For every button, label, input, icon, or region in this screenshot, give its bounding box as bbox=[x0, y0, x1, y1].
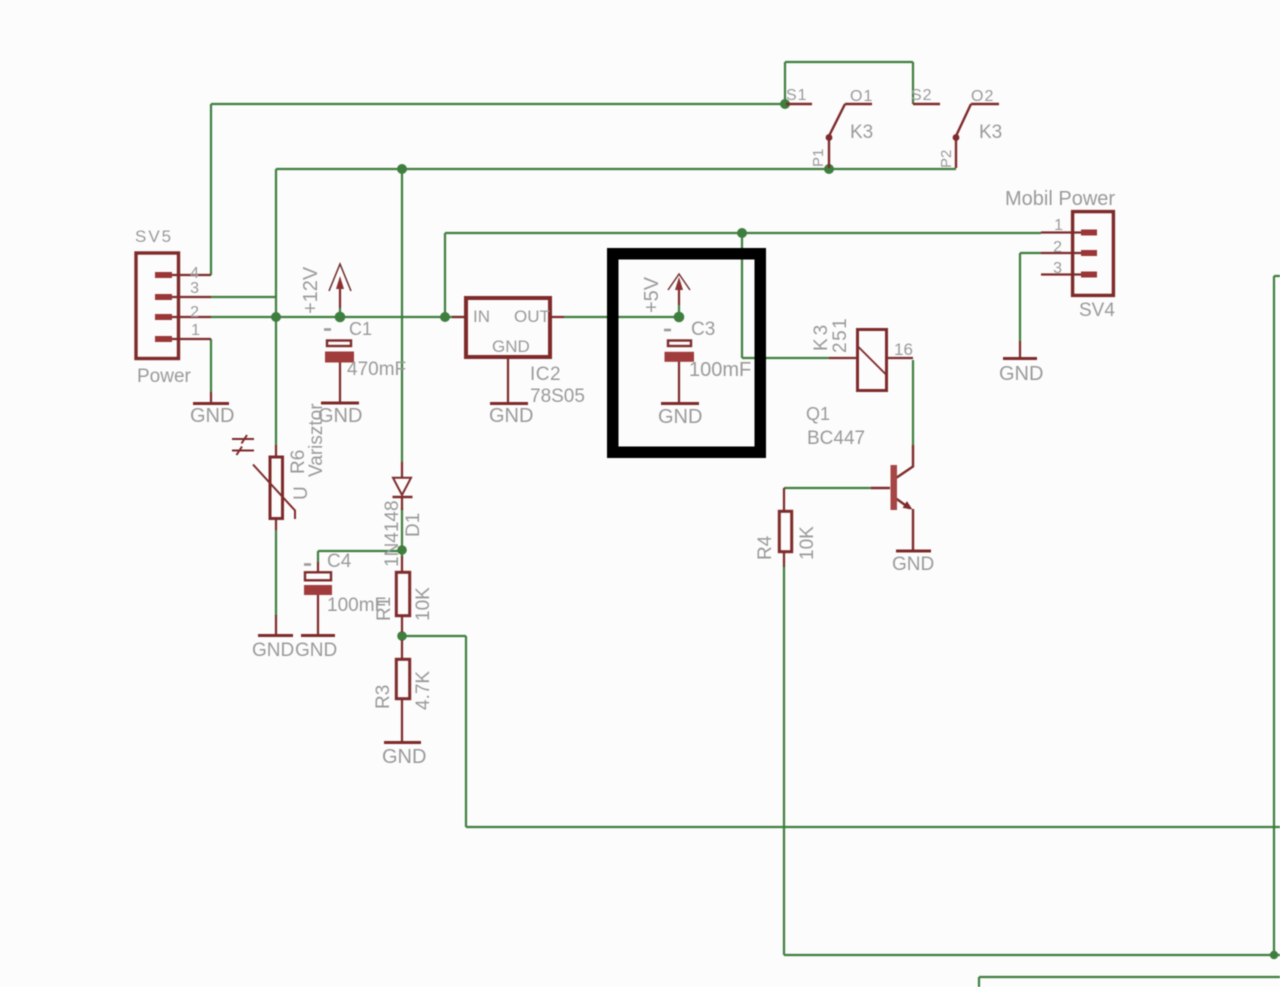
svg-text:C1: C1 bbox=[349, 319, 372, 339]
svg-text:SV5: SV5 bbox=[135, 227, 173, 246]
svg-text:Varisztor: Varisztor bbox=[306, 403, 327, 477]
svg-text:16: 16 bbox=[894, 340, 913, 359]
svg-text:C4: C4 bbox=[327, 551, 352, 572]
svg-text:+12V: +12V bbox=[300, 266, 322, 314]
svg-text:4.7K: 4.7K bbox=[413, 671, 434, 710]
svg-text:SV4: SV4 bbox=[1079, 300, 1115, 321]
svg-text:K3: K3 bbox=[979, 122, 1002, 143]
svg-text:GND: GND bbox=[295, 640, 337, 661]
svg-text:3: 3 bbox=[1053, 260, 1062, 277]
svg-text:K3: K3 bbox=[850, 122, 873, 143]
svg-text:470mF: 470mF bbox=[347, 359, 406, 380]
svg-text:GND: GND bbox=[492, 337, 530, 356]
svg-text:GND: GND bbox=[658, 406, 702, 428]
svg-text:GND: GND bbox=[489, 405, 533, 427]
svg-text:GND: GND bbox=[252, 640, 294, 661]
svg-text:10K: 10K bbox=[413, 587, 434, 621]
svg-text:R6: R6 bbox=[288, 450, 309, 474]
svg-text:S2: S2 bbox=[911, 87, 933, 104]
svg-text:1: 1 bbox=[191, 322, 200, 339]
svg-text:10K: 10K bbox=[797, 526, 818, 560]
svg-text:100mF: 100mF bbox=[689, 359, 751, 381]
svg-text:Q1: Q1 bbox=[806, 404, 830, 424]
svg-text:GND: GND bbox=[892, 554, 934, 575]
svg-text:78S05: 78S05 bbox=[530, 386, 585, 407]
svg-text:1N4148: 1N4148 bbox=[382, 500, 403, 567]
svg-text:P2: P2 bbox=[938, 150, 955, 168]
svg-text:IN: IN bbox=[473, 307, 490, 326]
svg-text:U: U bbox=[291, 486, 312, 500]
svg-text:2: 2 bbox=[190, 304, 199, 321]
svg-text:R4: R4 bbox=[755, 535, 776, 560]
svg-text:GND: GND bbox=[999, 363, 1043, 385]
svg-text:Mobil Power: Mobil Power bbox=[1005, 188, 1115, 210]
svg-text:3: 3 bbox=[190, 280, 199, 297]
svg-text:GND: GND bbox=[382, 746, 426, 768]
svg-text:IC2: IC2 bbox=[530, 364, 561, 385]
svg-text:R3: R3 bbox=[373, 685, 394, 709]
svg-text:O2: O2 bbox=[971, 88, 994, 105]
svg-text:O1: O1 bbox=[850, 88, 873, 105]
svg-text:Power: Power bbox=[137, 366, 192, 387]
svg-text:GND: GND bbox=[190, 405, 234, 427]
svg-text:D1: D1 bbox=[403, 513, 424, 537]
svg-text:C3: C3 bbox=[691, 319, 715, 340]
svg-text:BC447: BC447 bbox=[807, 428, 865, 449]
svg-text:S1: S1 bbox=[786, 87, 808, 104]
svg-text:+5V: +5V bbox=[641, 276, 663, 313]
svg-text:K3: K3 bbox=[811, 322, 832, 351]
svg-text:2: 2 bbox=[1053, 239, 1062, 256]
svg-text:R1: R1 bbox=[374, 597, 395, 621]
svg-text:P1: P1 bbox=[810, 149, 827, 167]
svg-text:OUT: OUT bbox=[514, 307, 550, 326]
svg-text:251: 251 bbox=[830, 317, 851, 353]
svg-text:1: 1 bbox=[1054, 217, 1063, 234]
